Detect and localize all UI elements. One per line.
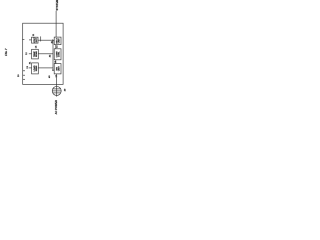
svg-text:40: 40 xyxy=(48,75,51,78)
svg-text:CTRL: CTRL xyxy=(58,51,60,57)
wire LB2 left dash xyxy=(29,52,32,55)
box RB3 xyxy=(54,64,61,74)
wire W2 LB2 to bus xyxy=(38,52,53,55)
apparatus outer box 100 xyxy=(23,23,63,84)
svg-text:13: 13 xyxy=(27,65,29,68)
svg-text:42: 42 xyxy=(49,54,52,57)
wire W1 LB1 to RB1 xyxy=(38,39,53,42)
svg-text:SENS: SENS xyxy=(36,51,38,57)
box LB1 xyxy=(32,37,39,43)
svg-text:11: 11 xyxy=(33,33,35,36)
svg-text:14: 14 xyxy=(34,45,37,48)
stub below source xyxy=(55,95,58,96)
box RB1 xyxy=(54,37,61,45)
wire LB1 left stub xyxy=(22,38,24,41)
svg-text:12: 12 xyxy=(26,52,28,55)
svg-text:CONV: CONV xyxy=(56,51,58,58)
svg-text:INV: INV xyxy=(56,66,58,70)
wire W4 bus to RB3 xyxy=(51,69,55,72)
svg-text:LOAD: LOAD xyxy=(33,65,36,71)
svg-text:VOLT: VOLT xyxy=(34,37,36,43)
wire top external xyxy=(54,11,57,37)
box LB2 xyxy=(32,49,39,59)
svg-text:UNIT: UNIT xyxy=(58,38,60,44)
svg-text:RECT: RECT xyxy=(56,37,58,43)
svg-text:10: 10 xyxy=(18,74,20,77)
svg-text:20: 20 xyxy=(64,88,66,91)
wire RB1 to RB2 xyxy=(54,45,57,49)
wire bus vertical xyxy=(51,40,54,70)
terminal ticks on left edge xyxy=(23,71,25,80)
tick above wire W1 xyxy=(39,36,42,41)
wire RB2 to RB3 xyxy=(54,60,57,64)
arrowhead into RB3 xyxy=(52,69,54,71)
svg-text:AC POWER: AC POWER xyxy=(54,100,58,114)
box LB3 xyxy=(32,63,39,74)
wire W3 LB3 to bus xyxy=(38,66,53,69)
svg-text:FIG. 7: FIG. 7 xyxy=(4,48,8,56)
svg-text:TEMP: TEMP xyxy=(34,51,36,57)
svg-text:15: 15 xyxy=(57,45,59,48)
AC source circle 20 xyxy=(52,86,61,95)
arrowhead into RB1 xyxy=(52,39,54,41)
wire RB3 to source xyxy=(55,74,58,87)
svg-text:UNIT: UNIT xyxy=(58,66,60,72)
svg-text:SYSTEM: SYSTEM xyxy=(55,0,59,10)
wire LB3 left dash xyxy=(29,66,32,69)
svg-text:SENS: SENS xyxy=(36,65,38,71)
svg-text:31: 31 xyxy=(29,61,31,64)
svg-text:DET: DET xyxy=(36,37,38,42)
box RB2 xyxy=(54,49,61,60)
